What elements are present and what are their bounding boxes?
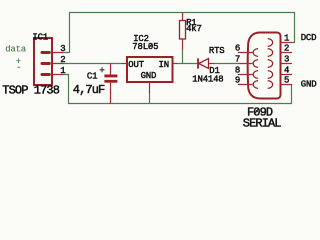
DB9 left contact arcs — [253, 49, 258, 89]
svg-text:9: 9 — [235, 76, 240, 86]
D1 anode stub — [209, 63, 215, 65]
svg-text:+: + — [99, 66, 104, 76]
wire +5V net: IC1 pin2 to C1 junction to IC2 OUT — [63, 63, 122, 65]
wire GND net: IC1 pin1 down to bottom rail across and up to DB9 pin5 — [63, 75, 292, 104]
svg-text:TSOP 1738: TSOP 1738 — [2, 84, 59, 98]
svg-text:IN: IN — [159, 60, 169, 70]
svg-text:3: 3 — [284, 55, 289, 65]
svg-text:RTS: RTS — [209, 46, 225, 56]
DB9 right contact arcs — [268, 39, 273, 89]
value 78L05 slashed-zero mark — [149, 43, 153, 48]
svg-text:78L05: 78L05 — [132, 42, 158, 52]
name F09D slashed-zero mark — [254, 109, 258, 115]
resistor R1 body — [180, 21, 186, 40]
regulator IC2 body — [127, 57, 173, 82]
IC2 GND pin stub — [149, 82, 151, 93]
R1 top lead — [182, 13, 184, 21]
wire IN net: IC2 IN to R1 junction to D1 cathode — [178, 63, 198, 65]
svg-text:DCD: DCD — [301, 33, 317, 43]
svg-text:IC1: IC1 — [32, 32, 48, 42]
svg-text:4: 4 — [284, 66, 289, 76]
diode D1 triangle — [199, 59, 209, 69]
svg-text:C1: C1 — [87, 72, 97, 82]
wire VCC net: IC1 pin3 to top rail across to DB9 pin1 DCD — [63, 13, 295, 53]
svg-text:4,7uF: 4,7uF — [73, 83, 105, 97]
svg-text:SERIAL: SERIAL — [243, 117, 282, 131]
svg-text:1N4148: 1N4148 — [192, 75, 223, 85]
svg-text:data: data — [5, 45, 27, 55]
connector X1 DB9 body — [248, 33, 281, 99]
svg-text:-: - — [16, 63, 21, 73]
svg-text:4k7: 4k7 — [186, 24, 202, 34]
capacitor C1 bottom plate — [104, 80, 117, 83]
svg-text:GND: GND — [141, 71, 157, 81]
svg-text:2: 2 — [60, 55, 65, 65]
connector IC1 body — [34, 38, 52, 85]
IC2 OUT pin stub — [122, 63, 128, 65]
svg-text:7: 7 — [235, 55, 240, 65]
diode D1 cathode bar — [197, 58, 199, 68]
R1 bottom lead — [182, 39, 184, 50]
connector IC1 pin contact bars — [42, 53, 49, 75]
connector IC1 pin lines 3,2,1 — [52, 53, 63, 75]
svg-text:GND: GND — [301, 80, 317, 90]
IC2 IN pin stub — [173, 63, 178, 65]
svg-text:8: 8 — [235, 66, 240, 76]
svg-text:OUT: OUT — [128, 60, 144, 70]
capacitor C1 top plate — [104, 75, 117, 78]
C1 top lead — [110, 64, 112, 75]
DB9 right pin lines 1-5 — [281, 43, 293, 85]
wire D1 anode to DB9 pin7 RTS — [214, 63, 238, 65]
svg-text:1: 1 — [60, 66, 65, 76]
C1 bottom lead — [110, 83, 112, 104]
svg-text:6: 6 — [235, 44, 240, 54]
wire R1 bottom lead net segment — [182, 50, 184, 64]
svg-text:1: 1 — [284, 34, 289, 44]
DB9 left pin lines 6-9 — [238, 53, 253, 85]
svg-text:3: 3 — [60, 44, 65, 54]
svg-text:2: 2 — [284, 44, 289, 54]
wire IC2 GND pin to bottom rail — [149, 93, 151, 104]
svg-text:5: 5 — [284, 76, 289, 86]
